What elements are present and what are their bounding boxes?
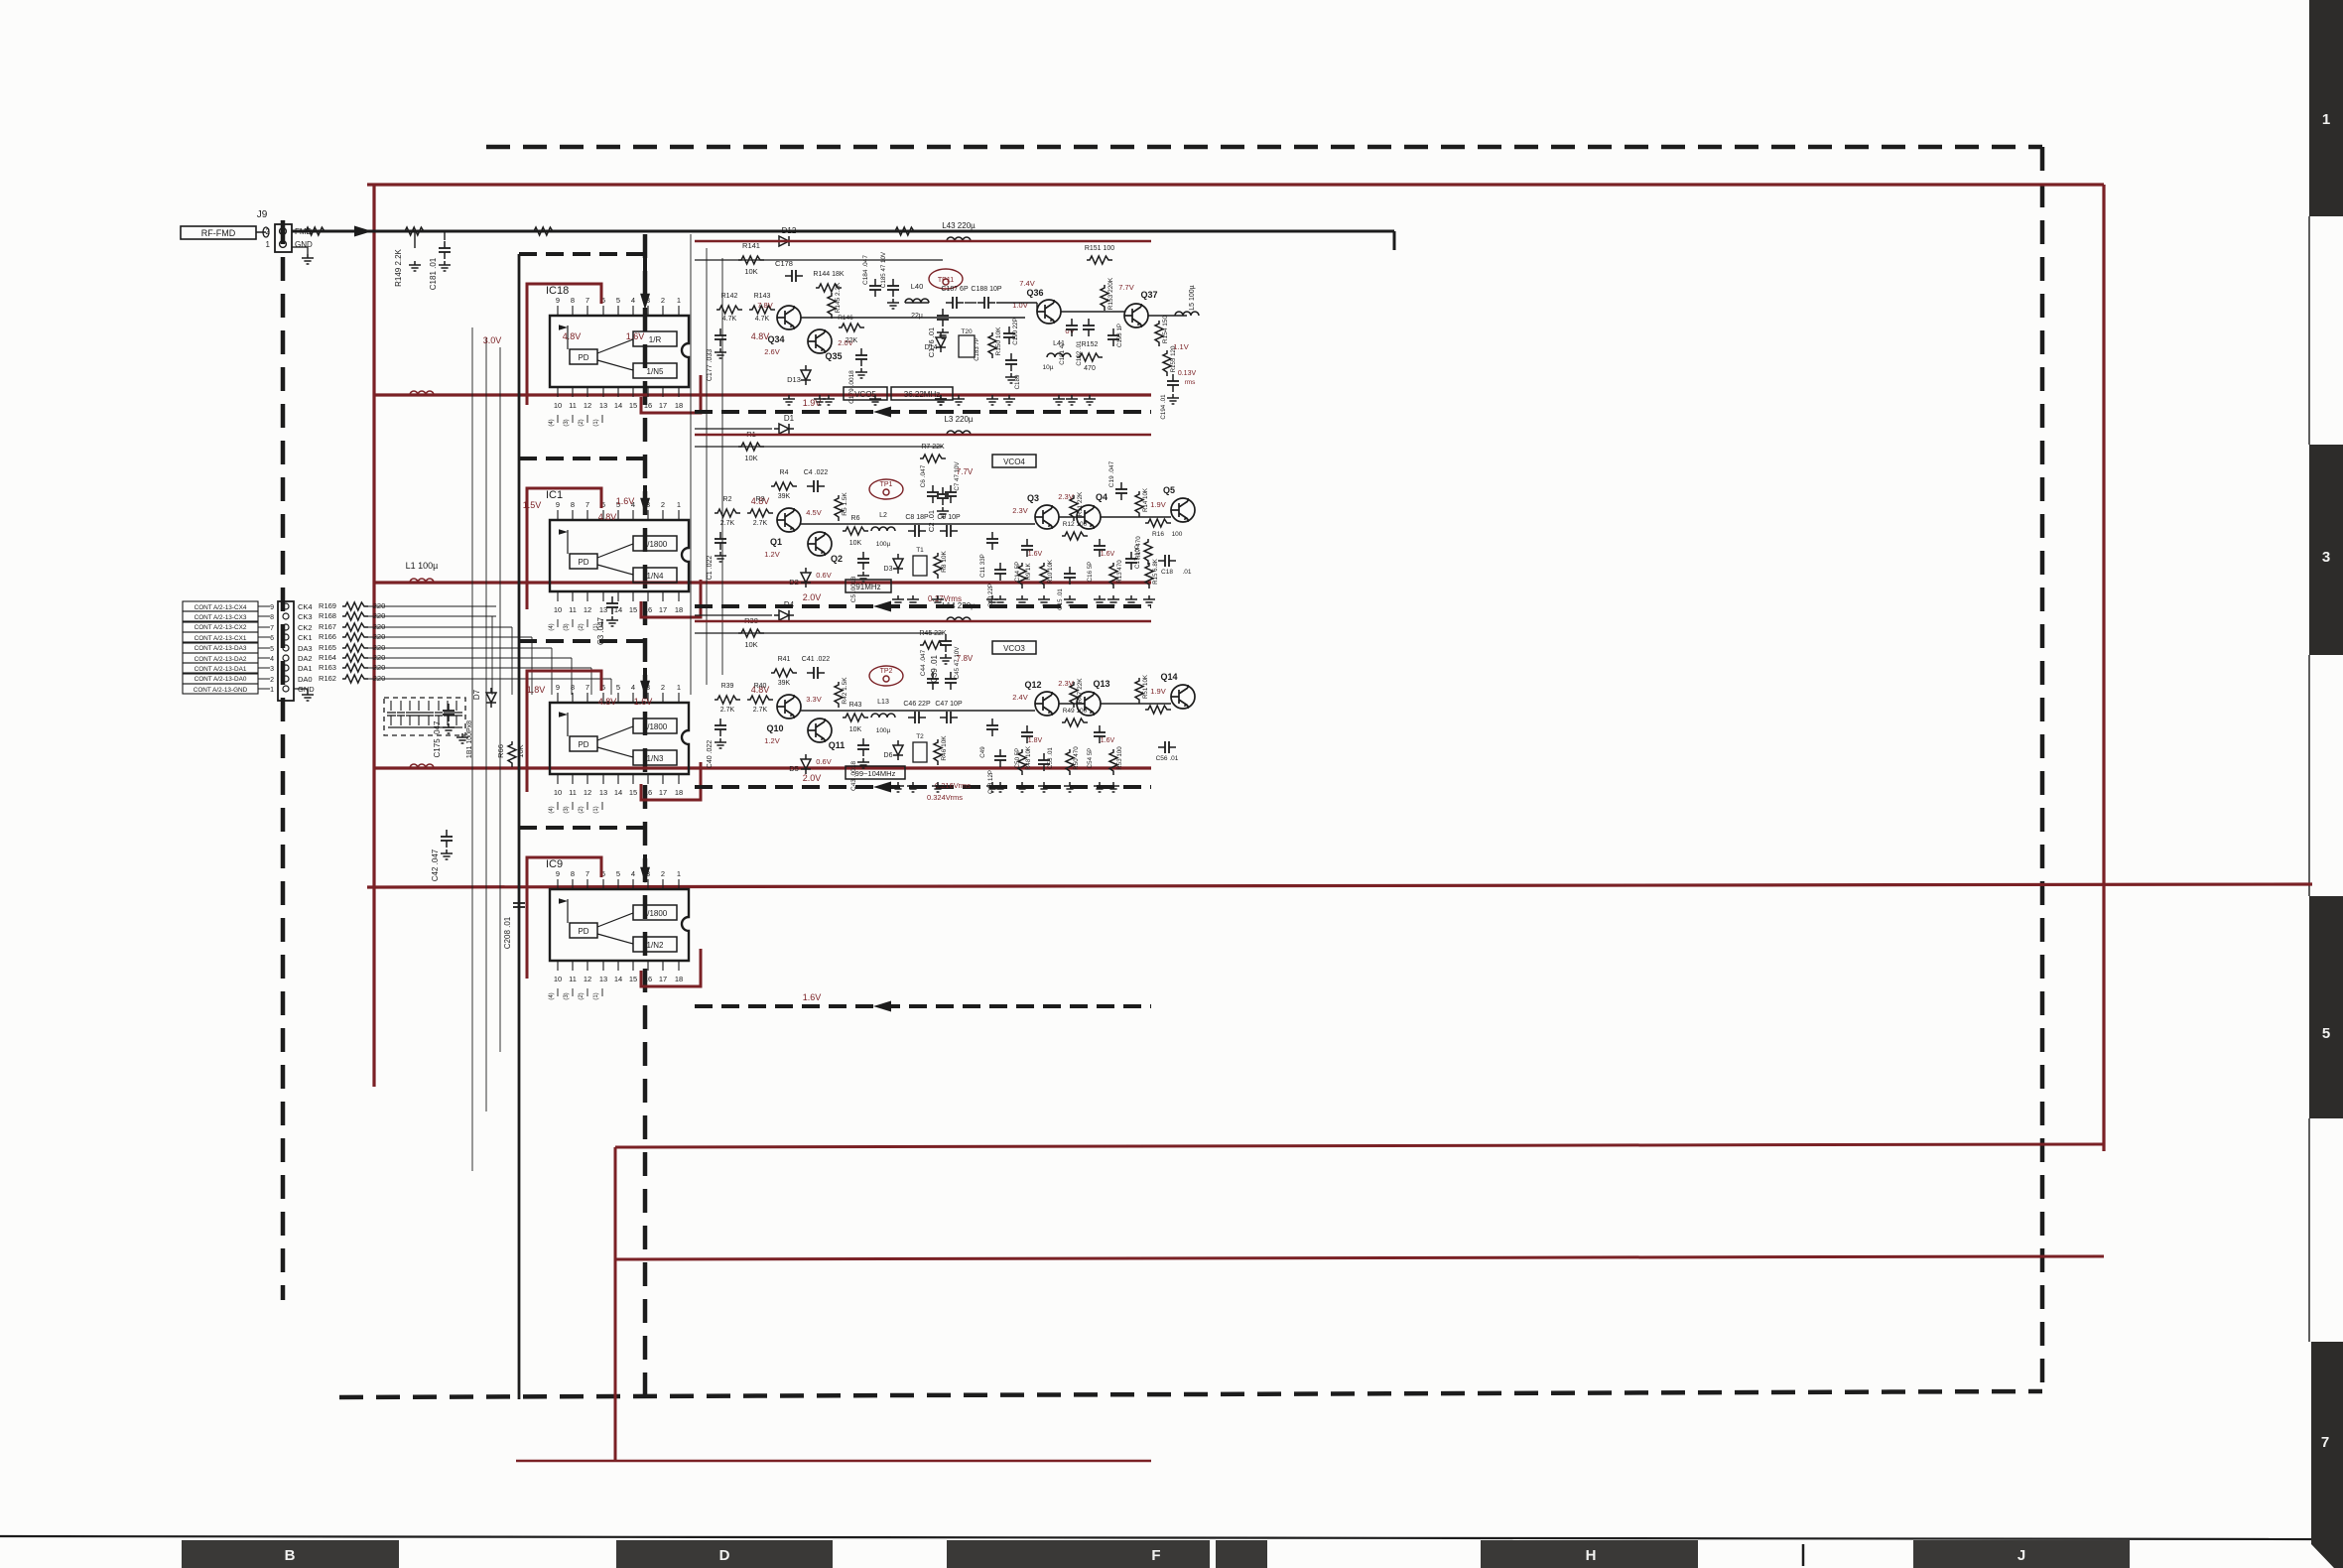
svg-text:4.5V: 4.5V (806, 508, 821, 517)
svg-text:1/N5: 1/N5 (647, 367, 664, 376)
net maroon rail row4 (374, 766, 1151, 769)
capacitor C43 .0018 (857, 738, 869, 756)
resistor R40 2.7K (747, 696, 773, 704)
svg-text:(1): (1) (593, 419, 599, 426)
svg-text:3.3V: 3.3V (806, 695, 821, 704)
ground cluster row1 (935, 395, 947, 405)
svg-text:9: 9 (556, 500, 560, 509)
svg-text:PD: PD (578, 353, 588, 362)
capacitor C208 .01 (513, 896, 525, 914)
svg-text:0.6V: 0.6V (816, 571, 831, 580)
resistor R142 4.7K (716, 306, 742, 314)
svg-text:(3): (3) (564, 806, 570, 813)
capacitor C42 .047 (441, 830, 453, 848)
svg-text:R3: R3 (756, 496, 765, 503)
svg-text:CONT A/2-13-CX3: CONT A/2-13-CX3 (195, 614, 247, 621)
net maroon rail row3 (374, 581, 1151, 584)
capacitor C190 22P (1003, 327, 1015, 344)
capacitor C49 22P (986, 719, 998, 736)
diode D4 (774, 610, 794, 620)
wire maroon row2 link (695, 434, 1151, 436)
svg-text:Q4: Q4 (1096, 492, 1107, 502)
svg-text:1.6V: 1.6V (1101, 737, 1115, 744)
divider 1/1800 of IC9 (633, 905, 677, 920)
svg-text:C178: C178 (775, 259, 793, 268)
capacitor C181 .01 (439, 241, 451, 259)
svg-text:CONT A/2-13-GND: CONT A/2-13-GND (194, 687, 248, 694)
resistor R48 10K (1018, 749, 1026, 775)
wire FMD bus drop (1393, 231, 1396, 250)
svg-text:RF-FMD: RF-FMD (201, 228, 236, 238)
svg-text:T20: T20 (961, 328, 973, 335)
diode D14 (936, 332, 946, 352)
svg-text:R168: R168 (319, 611, 336, 620)
wire CK1 (368, 636, 496, 638)
svg-text:D: D (719, 1547, 730, 1564)
svg-text:1: 1 (677, 296, 681, 305)
capacitor C185 47 10V (887, 279, 899, 297)
svg-text:CONT A/2-13-DA2: CONT A/2-13-DA2 (195, 656, 247, 663)
svg-text:R42 1.5K: R42 1.5K (842, 677, 848, 705)
svg-text:0.324Vrms: 0.324Vrms (927, 793, 963, 802)
capacitor C184 .047 (869, 279, 881, 297)
svg-text:CK3: CK3 (298, 612, 313, 621)
wire row2 feed (695, 446, 943, 448)
divider 1/1800 of IC9b (633, 719, 677, 733)
svg-text:7: 7 (586, 500, 589, 509)
svg-text:CONT A/2-13-DA3: CONT A/2-13-DA3 (195, 645, 247, 652)
resistor R141 10K (738, 256, 764, 264)
resistor R10 10K (1040, 563, 1048, 588)
svg-text:3: 3 (2322, 549, 2330, 566)
capacitor C45 47 10V (945, 672, 957, 690)
capacitor C14 5P (1021, 539, 1033, 557)
wire DA1 (368, 667, 496, 669)
svg-text:11: 11 (569, 788, 577, 797)
svg-text:4.8V: 4.8V (598, 512, 617, 522)
wire maroon row1 link (695, 240, 1151, 242)
svg-text:(1): (1) (593, 806, 599, 813)
svg-text:R4: R4 (780, 469, 789, 476)
label box VCO5 (844, 387, 887, 400)
svg-text:C9 10P: C9 10P (937, 514, 961, 521)
inductor L1 100u (410, 579, 434, 583)
svg-text:1/N4: 1/N4 (647, 572, 664, 581)
svg-text:11: 11 (569, 975, 577, 983)
svg-text:Q11: Q11 (829, 740, 846, 750)
test point TP11 (929, 269, 963, 289)
resistor R16 100 (1145, 519, 1171, 527)
svg-text:C6 .047: C6 .047 (920, 464, 927, 487)
svg-text:1.8V: 1.8V (527, 685, 546, 695)
capacitor C4 .022 (807, 480, 825, 492)
svg-text:VCO3: VCO3 (1003, 644, 1025, 653)
grid bar F (947, 1540, 1210, 1568)
inductor L3 220u (947, 431, 971, 435)
label box 99-104MHz (846, 766, 905, 779)
svg-text:1/R: 1/R (649, 335, 662, 344)
transistor Q11 (808, 719, 832, 742)
svg-text:13: 13 (599, 975, 607, 983)
ferrite bead FB1 (303, 227, 328, 235)
terminal CONT A/2-13-CX2 (183, 622, 258, 632)
wire DA0 (368, 678, 496, 680)
trimmer T20 C183 7P (959, 335, 975, 357)
svg-text:L2: L2 (879, 512, 887, 519)
wire CK2 (368, 626, 496, 628)
svg-text:(1): (1) (593, 992, 599, 999)
svg-text:C208 .01: C208 .01 (503, 916, 512, 949)
resistor R12 100 (1062, 532, 1088, 540)
resistor R45 22K (920, 641, 946, 649)
divider 1/N2 of IC9 (633, 937, 677, 952)
svg-text:R6: R6 (851, 515, 860, 522)
svg-text:.01: .01 (1182, 569, 1191, 576)
svg-text:R2: R2 (723, 496, 732, 503)
svg-text:Q5: Q5 (1163, 485, 1175, 495)
transistor Q10 (777, 695, 801, 719)
svg-text:91MHz: 91MHz (855, 583, 880, 591)
svg-text:2.0V: 2.0V (803, 592, 822, 602)
svg-text:18: 18 (675, 975, 683, 983)
resistor R9 1K (1018, 563, 1026, 588)
svg-text:CK2: CK2 (298, 623, 313, 632)
resistor R42 1.5K (835, 682, 843, 708)
svg-text:2.3V: 2.3V (1058, 492, 1073, 501)
capacitor C19 .047 (1115, 482, 1127, 500)
svg-text:17: 17 (659, 605, 667, 614)
svg-text:R141: R141 (742, 241, 760, 250)
grid bar B (182, 1540, 399, 1568)
svg-text:11: 11 (569, 401, 577, 410)
svg-text:Q3: Q3 (1027, 493, 1039, 503)
svg-text:Q2: Q2 (831, 554, 843, 564)
capacitor C193 1P (1107, 328, 1119, 346)
capacitor C40 .022 (715, 719, 726, 736)
diode D3 (893, 554, 903, 574)
svg-text:100: 100 (1172, 531, 1183, 538)
svg-text:R15 6.8K: R15 6.8K (1152, 558, 1159, 585)
svg-text:1: 1 (270, 687, 274, 694)
svg-text:5: 5 (270, 646, 274, 653)
label box VCO4 (992, 455, 1036, 467)
phase detector PD of IC9b (570, 736, 597, 751)
svg-text:L5 100µ: L5 100µ (1189, 285, 1196, 310)
svg-text:DA2: DA2 (298, 654, 313, 663)
svg-text:14: 14 (614, 401, 622, 410)
shield border top (486, 145, 2042, 150)
svg-text:22K: 22K (846, 337, 858, 344)
svg-text:8: 8 (270, 614, 274, 621)
grid bar F2 segment (1216, 1540, 1267, 1568)
svg-text:R150 10K: R150 10K (995, 327, 1002, 356)
svg-text:D6: D6 (884, 752, 893, 759)
svg-text:R16: R16 (1152, 531, 1164, 538)
resistor R150 10K (988, 332, 996, 358)
resistor R3 2.7K (747, 509, 773, 517)
svg-text:8: 8 (571, 500, 575, 509)
page border bottom rule (0, 1536, 2312, 1539)
svg-text:R145 2.2K: R145 2.2K (835, 282, 842, 313)
net maroon rail row2 (374, 393, 1151, 396)
svg-text:C49: C49 (979, 746, 986, 758)
svg-text:2: 2 (661, 500, 665, 509)
svg-text:T2: T2 (916, 733, 924, 740)
svg-text:TP2: TP2 (880, 668, 893, 675)
resistor R15 6.8K (1145, 563, 1153, 588)
svg-text:R164: R164 (319, 653, 336, 662)
svg-text:4: 4 (270, 656, 274, 663)
svg-text:100µ: 100µ (876, 727, 891, 734)
svg-text:R149 2.2K: R149 2.2K (394, 248, 403, 286)
svg-text:3: 3 (270, 666, 274, 673)
svg-text:8: 8 (571, 683, 575, 692)
shield border left inner (643, 234, 648, 1397)
svg-text:2: 2 (661, 869, 665, 878)
wire row2 chain (801, 523, 1035, 525)
terminal CONT A/2-13-GND (183, 684, 258, 694)
svg-text:1/1800: 1/1800 (643, 909, 668, 918)
svg-text:C14 5P: C14 5P (1014, 562, 1021, 583)
svg-text:C54 5P: C54 5P (1087, 748, 1094, 769)
svg-text:C185 47 10V: C185 47 10V (880, 251, 887, 288)
capacitor C1 .022 (715, 532, 726, 550)
svg-text:R8 10K: R8 10K (941, 550, 948, 572)
svg-text:7.8V: 7.8V (757, 301, 772, 310)
capacitor C47 10P (940, 712, 958, 723)
svg-text:1/N3: 1/N3 (647, 754, 664, 763)
transistor Q36 (1037, 300, 1061, 324)
wire row1 chain (801, 317, 1025, 319)
svg-text:R9 1K: R9 1K (1025, 563, 1032, 581)
diode D6 (893, 740, 903, 760)
capacitor C175 .047 (443, 704, 455, 721)
capacitor C194 .01 (1167, 374, 1179, 392)
svg-text:DA3: DA3 (298, 644, 313, 653)
phase detector PD of IC9 (570, 923, 597, 938)
capacitor C41 .022 (807, 667, 825, 679)
svg-text:2.7K: 2.7K (720, 520, 735, 527)
grid bar D (616, 1540, 833, 1568)
resistor R38 10K (738, 629, 764, 637)
diode D1 (774, 424, 794, 434)
svg-text:0.6V: 0.6V (816, 757, 831, 766)
svg-text:R14 10K: R14 10K (1142, 487, 1149, 512)
svg-text:5: 5 (2322, 1025, 2330, 1042)
diode D5 (801, 754, 811, 774)
capacitor C11 33P (986, 532, 998, 550)
svg-text:R43: R43 (849, 702, 862, 709)
capacitor C192 .01 (1083, 319, 1095, 336)
transistor Q37 (1124, 304, 1148, 327)
svg-text:10K: 10K (744, 640, 757, 649)
svg-text:DA1: DA1 (298, 664, 313, 673)
svg-text:C8 18P: C8 18P (905, 514, 929, 521)
wire PD links of IC9b (597, 726, 633, 740)
svg-text:J: J (2018, 1547, 2025, 1564)
resistor R52 100 (1145, 706, 1171, 714)
resistor R151 100 (1087, 256, 1112, 264)
svg-text:L13: L13 (877, 699, 889, 706)
svg-text:R39: R39 (721, 683, 734, 690)
inductor L14 220u (947, 617, 971, 621)
capacitor array 1B1 100Px8 (384, 698, 465, 735)
svg-text:TP1: TP1 (880, 481, 893, 488)
wire PD links of IC1 (597, 544, 633, 558)
capacitor C10 22P (994, 563, 1006, 581)
svg-text:D5: D5 (789, 764, 799, 773)
svg-text:4: 4 (631, 683, 635, 692)
resistor R143 4.7K (749, 306, 775, 314)
svg-text:PD: PD (578, 740, 588, 749)
svg-text:B: B (285, 1547, 296, 1564)
svg-text:C175 .047: C175 .047 (433, 720, 442, 757)
svg-text:17: 17 (659, 401, 667, 410)
transistor Q5 (1171, 498, 1195, 522)
svg-text:C18: C18 (1161, 569, 1173, 576)
svg-text:R50 470: R50 470 (1073, 746, 1080, 770)
net VCO5 return (695, 410, 1151, 414)
svg-text:10: 10 (554, 401, 562, 410)
ground cluster row2 (892, 595, 904, 605)
svg-text:7.7V: 7.7V (957, 467, 974, 476)
svg-text:PD: PD (578, 558, 588, 567)
svg-text:10K: 10K (849, 540, 862, 547)
wire feed dash of IC18 (519, 252, 645, 256)
svg-text:7: 7 (2321, 1434, 2329, 1451)
op-amp IC9b PLL block (550, 703, 689, 774)
diode D2 (801, 568, 811, 588)
transistor Q12 (1035, 692, 1059, 716)
transistor Q35 (808, 329, 832, 353)
svg-text:R53 100: R53 100 (1116, 746, 1123, 770)
capacitor C16 5P (1094, 539, 1106, 557)
capacitor C53 .01 (1038, 753, 1050, 771)
svg-text:Q12: Q12 (1024, 680, 1041, 690)
diode D13 (801, 365, 811, 385)
svg-text:2.4V: 2.4V (1012, 693, 1027, 702)
divider 1/N5 of IC18 (633, 363, 677, 378)
net B+ maroon rail top (367, 183, 2104, 186)
resistor R50 470 (1066, 749, 1074, 775)
terminal CONT A/2-13-DA0 (183, 674, 258, 684)
svg-text:7: 7 (270, 625, 274, 632)
op-amp IC18 PLL block (550, 316, 689, 387)
resistor R46 10K (934, 739, 942, 765)
svg-text:7.4V: 7.4V (1019, 279, 1034, 288)
svg-text:10: 10 (554, 975, 562, 983)
svg-text:R5 1.5K: R5 1.5K (842, 492, 848, 516)
svg-text:R167: R167 (319, 622, 336, 631)
svg-text:1.6V: 1.6V (1028, 551, 1043, 558)
svg-text:100µ: 100µ (876, 541, 891, 548)
svg-text:10K: 10K (744, 454, 757, 462)
svg-text:12: 12 (584, 605, 591, 614)
svg-text:R46 10K: R46 10K (941, 735, 948, 761)
svg-text:R41: R41 (778, 656, 791, 663)
svg-text:Q37: Q37 (1140, 290, 1157, 300)
svg-text:15: 15 (629, 788, 637, 797)
capacitor C2 .01 (937, 487, 949, 505)
resistor R1 10K (738, 443, 764, 451)
capacitor C179 .0018 (855, 348, 867, 366)
wire row3 feed (695, 632, 943, 634)
shield border bottom (339, 1391, 2042, 1397)
svg-text:R48 10K: R48 10K (1025, 745, 1032, 770)
svg-text:10K: 10K (744, 267, 757, 276)
resistor R149 2.2K (402, 227, 428, 235)
svg-text:C46 22P: C46 22P (903, 701, 931, 708)
svg-text:CONT A/2-13-DA0: CONT A/2-13-DA0 (195, 676, 247, 683)
resistor R47 22K (1070, 682, 1078, 708)
svg-text:R153 220K: R153 220K (1107, 277, 1114, 310)
svg-text:CONT A/2-13-CX2: CONT A/2-13-CX2 (195, 624, 247, 631)
svg-text:1.6V: 1.6V (634, 697, 653, 707)
svg-text:9: 9 (556, 683, 560, 692)
svg-text:Q36: Q36 (1026, 288, 1043, 298)
svg-text:R45 22K: R45 22K (919, 630, 947, 637)
svg-text:rms: rms (1185, 379, 1197, 386)
svg-text:2.0V: 2.0V (803, 773, 822, 783)
svg-text:3.0V: 3.0V (483, 335, 502, 345)
capacitor C18 .01 (1158, 555, 1176, 567)
svg-text:(4): (4) (549, 623, 555, 630)
svg-text:C194 .01: C194 .01 (1160, 394, 1167, 420)
svg-text:1: 1 (2322, 111, 2330, 128)
svg-text:5: 5 (616, 683, 620, 692)
svg-text:5: 5 (616, 869, 620, 878)
resistor R66 10K (508, 741, 516, 767)
ground CN GND (294, 688, 308, 690)
resistor R51 10K (1135, 678, 1143, 704)
svg-text:1.5V: 1.5V (523, 500, 542, 510)
capacitor C50 5P (1021, 725, 1033, 743)
tab spine line (2308, 216, 2310, 445)
resistor R4 39K (771, 482, 797, 490)
svg-text:12: 12 (584, 975, 591, 983)
svg-text:7: 7 (586, 683, 589, 692)
net maroon rail lower2 (615, 1256, 2104, 1259)
svg-text:8: 8 (571, 869, 575, 878)
resistor R6 10K (843, 527, 868, 535)
svg-text:C187 6P: C187 6P (941, 286, 969, 293)
svg-text:D13: D13 (787, 375, 801, 384)
terminal CONT A/2-13-CX3 (183, 611, 258, 621)
svg-text:2: 2 (661, 683, 665, 692)
label box VCO3 (992, 641, 1036, 654)
wire CK3 (368, 615, 496, 617)
wire DA2 (368, 657, 496, 659)
svg-text:7: 7 (586, 869, 589, 878)
svg-text:11: 11 (569, 605, 577, 614)
svg-text:16: 16 (644, 401, 652, 410)
net maroon left lower spine (614, 1147, 617, 1461)
shield border right (2040, 147, 2045, 1394)
transistor Q2 (808, 532, 832, 556)
svg-text:2: 2 (270, 677, 274, 684)
svg-text:CK4: CK4 (298, 602, 313, 611)
transistor Q14 (1171, 685, 1195, 709)
svg-text:L43 220µ: L43 220µ (942, 221, 976, 230)
svg-text:(4): (4) (549, 806, 555, 813)
net maroon loop of IC9b (527, 671, 601, 792)
transistor Q13 (1077, 692, 1101, 716)
diode D12 (774, 236, 794, 246)
index tab 1 (2309, 0, 2343, 216)
svg-text:Q34: Q34 (767, 334, 784, 344)
capacitor C17 10P (1125, 552, 1137, 570)
terminal CONT A/2-13-DA2 (183, 653, 258, 663)
